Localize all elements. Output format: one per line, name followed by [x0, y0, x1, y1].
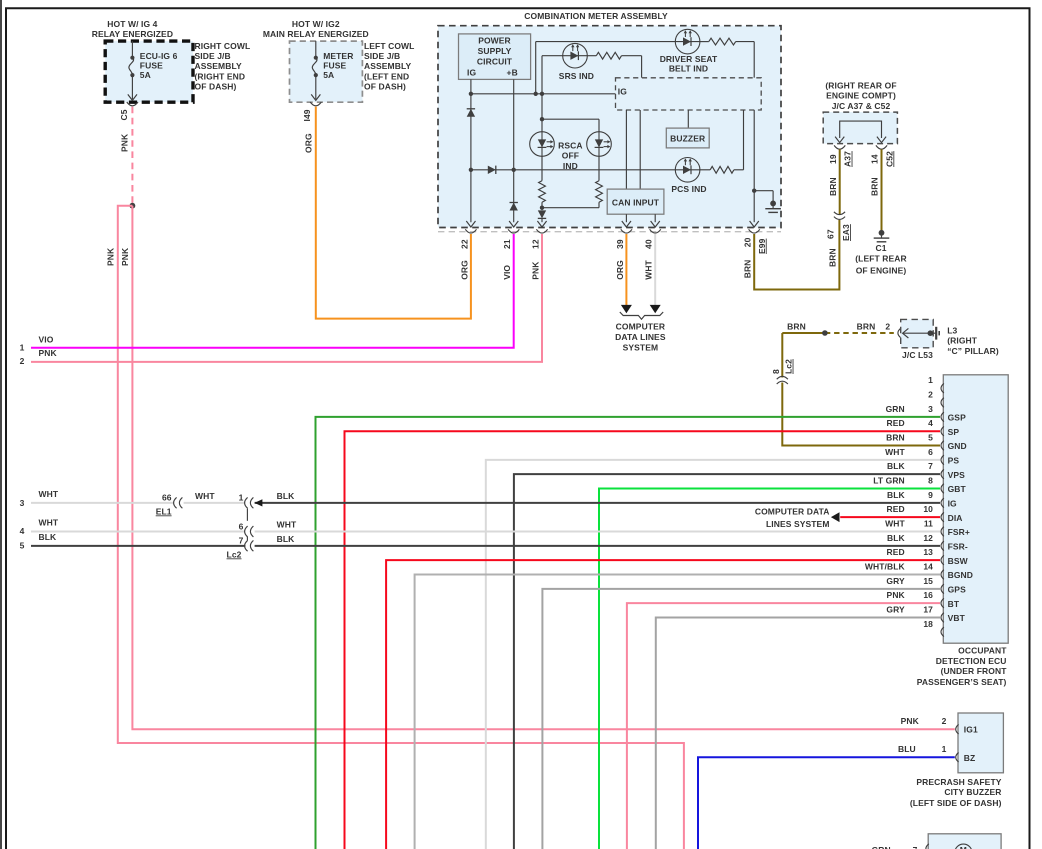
svg-text:IG: IG [948, 498, 957, 508]
svg-text:4: 4 [928, 418, 933, 428]
label COMBINATION METER ASSEMBLY [524, 11, 668, 21]
svg-text:20: 20 [743, 237, 753, 247]
svg-text:DATA LINES: DATA LINES [615, 332, 666, 342]
svg-text:LEFT COWL: LEFT COWL [364, 41, 414, 51]
svg-text:5A: 5A [140, 70, 151, 80]
svg-text:BELT IND: BELT IND [669, 63, 708, 73]
wire ORG from I49 to meter pin 22 [303, 107, 471, 319]
wire IG vertical to pin 22 [466, 79, 475, 227]
motor M symbol [955, 844, 972, 849]
svg-text:SIDE J/B: SIDE J/B [364, 51, 400, 61]
label COMPUTER DATA LINES SYSTEM bottom [615, 321, 666, 352]
svg-text:CIRCUIT: CIRCUIT [477, 56, 513, 66]
junction connector J/C A37 C52 box [823, 112, 897, 144]
svg-text:WHT: WHT [644, 259, 654, 279]
svg-text:BT: BT [948, 599, 960, 609]
svg-text:1: 1 [942, 744, 947, 754]
wire CAN to pin 40 [651, 214, 660, 227]
label RSCA OFF IND [558, 141, 583, 171]
occupant detection ECU box [943, 375, 1008, 643]
wire PNK pin 16 BT [627, 603, 940, 849]
label PRECRASH SAFETY CITY BUZZER [910, 777, 1002, 808]
svg-text:8: 8 [928, 476, 933, 486]
svg-text:VIO: VIO [502, 265, 512, 280]
svg-text:ASSEMBLY: ASSEMBLY [195, 61, 242, 71]
wire ORG pin 39 to data lines [621, 234, 632, 313]
svg-text:7: 7 [928, 461, 933, 471]
svg-text:BLK: BLK [887, 490, 906, 500]
precrash safety city buzzer box [958, 713, 1003, 773]
svg-text:POWER: POWER [478, 36, 511, 46]
wire BLU buzzer BZ [698, 757, 955, 849]
svg-text:5: 5 [20, 540, 25, 550]
wire RED pin 10 DIA computer data lines [831, 512, 940, 522]
wire BRN down to GND pin 5 [782, 333, 940, 446]
svg-text:+B: +B [507, 67, 518, 77]
brace computer data lines [620, 312, 663, 319]
seat motor box bottom [928, 834, 1001, 849]
svg-text:BUZZER: BUZZER [670, 134, 705, 144]
svg-text:GRN: GRN [872, 845, 891, 849]
wire PNK pin 12 to row 2 [31, 234, 542, 362]
wire to driver seat belt branch [535, 42, 537, 94]
connector EL1 pin 66 [156, 493, 183, 517]
svg-text:J/C A37 & C52: J/C A37 & C52 [832, 101, 891, 111]
label COMPUTER DATA LINES SYSTEM left [755, 507, 830, 529]
svg-text:WHT/BLK: WHT/BLK [865, 561, 906, 571]
svg-text:ECU-IG 6: ECU-IG 6 [140, 51, 178, 61]
ECU pin numbers [923, 375, 933, 629]
connector EA3 [826, 212, 851, 241]
svg-text:RELAY ENERGIZED: RELAY ENERGIZED [92, 29, 173, 39]
junction box right cowl side J/B (bold dashed) [105, 41, 193, 102]
svg-text:1: 1 [20, 343, 25, 353]
svg-text:PNK: PNK [531, 261, 541, 280]
svg-text:17: 17 [923, 604, 933, 614]
svg-text:A37: A37 [843, 151, 853, 167]
wire to internal ground [754, 191, 773, 201]
buzzer pin 1 BZ connector [898, 744, 959, 762]
label RIGHT COWL SIDE J/B ASSEMBLY [195, 41, 251, 91]
wire GRY pin 17 VBT [656, 617, 940, 849]
svg-text:C1: C1 [875, 243, 886, 253]
pin 19 A37 connector [828, 145, 853, 167]
svg-text:7: 7 [913, 845, 918, 849]
label OCCUPANT DETECTION ECU [917, 646, 1007, 687]
svg-text:ASSEMBLY: ASSEMBLY [364, 61, 411, 71]
fuse METER 5A [311, 41, 320, 100]
svg-text:ENGINE COMPT): ENGINE COMPT) [826, 91, 896, 101]
svg-text:19: 19 [828, 154, 838, 164]
svg-text:WHT: WHT [885, 519, 905, 529]
svg-text:1: 1 [928, 375, 933, 385]
svg-text:PNK: PNK [120, 133, 130, 152]
label BRN below EA3 [828, 248, 838, 267]
svg-text:WHT: WHT [277, 520, 297, 530]
wire RED pin 4 SP [345, 431, 941, 849]
junction connector J/C L53 box [901, 319, 934, 347]
svg-text:CITY BUZZER: CITY BUZZER [944, 787, 1001, 797]
resistor R4 RSCA right [542, 156, 602, 207]
svg-text:13: 13 [923, 547, 933, 557]
svg-text:“C” PILLAR): “C” PILLAR) [947, 346, 999, 356]
svg-text:L3: L3 [947, 325, 957, 335]
svg-text:PNK: PNK [120, 247, 130, 266]
pin stub right of L53 [933, 327, 939, 340]
wire CAN to pin 39 [622, 214, 631, 227]
wire WHT row 4 to ECU pin 11 FSR+ [255, 520, 940, 532]
svg-text:C5: C5 [119, 109, 129, 120]
svg-text:(LEFT REAR: (LEFT REAR [855, 253, 907, 263]
svg-text:6: 6 [928, 447, 933, 457]
connector Lc2 pin 1 [239, 493, 254, 509]
wire rail to PCS IND [469, 168, 676, 172]
connector arc to J/C L53 [898, 328, 901, 338]
splice junction on PNK [130, 203, 136, 209]
svg-text:OFF: OFF [562, 151, 579, 161]
wire RED pin 13 BSW [386, 560, 940, 849]
wire LT GRN pin 8 GBT [599, 489, 940, 849]
pin 22 connector [459, 229, 476, 279]
svg-text:IG1: IG1 [964, 725, 978, 735]
svg-text:2: 2 [20, 356, 25, 366]
power supply circuit block [459, 34, 531, 80]
buzzer block [666, 128, 709, 148]
svg-text:5A: 5A [323, 70, 334, 80]
ground internal meter [765, 201, 781, 213]
motor pin 7 connector [872, 844, 929, 849]
svg-text:21: 21 [502, 239, 512, 249]
CAN INPUT block [607, 189, 664, 214]
svg-text:HOT W/ IG 4: HOT W/ IG 4 [107, 19, 157, 29]
label HOT W/ IG 4 RELAY ENERGIZED [92, 19, 173, 39]
LED RSCA OFF IND left [530, 132, 555, 157]
svg-text:EA3: EA3 [841, 224, 851, 241]
svg-text:Lc2: Lc2 [784, 359, 794, 374]
wire BRN pin 20 to EA3 [754, 220, 839, 290]
wire WHT between connectors row 3 [184, 491, 246, 503]
resistor R1 SRS [596, 52, 641, 78]
svg-text:FSR+: FSR+ [948, 527, 970, 537]
svg-text:DIA: DIA [948, 513, 963, 523]
svg-text:GPS: GPS [948, 584, 966, 594]
node 4 wire WHT row [20, 518, 246, 536]
connector link vertical [246, 508, 248, 540]
label J/C L53 [902, 350, 933, 360]
svg-text:WHT: WHT [195, 491, 215, 501]
svg-text:BZ: BZ [964, 753, 976, 763]
pin 20 connector E99 [743, 229, 767, 278]
svg-text:10: 10 [923, 504, 933, 514]
arrow link inside L53 [903, 328, 934, 338]
svg-text:GBT: GBT [948, 484, 967, 494]
wire BLK pin 7 VPS [514, 474, 940, 849]
svg-text:(RIGHT: (RIGHT [947, 336, 978, 346]
svg-text:39: 39 [615, 239, 625, 249]
label METER FUSE 5A [323, 51, 353, 80]
svg-text:BLK: BLK [277, 491, 296, 501]
svg-text:LT GRN: LT GRN [873, 476, 905, 486]
page edge line [0, 0, 2, 849]
svg-text:BRN: BRN [870, 177, 880, 196]
svg-text:FSR-: FSR- [948, 541, 968, 551]
wire BRN A37 down [828, 149, 840, 214]
svg-text:VPS: VPS [948, 470, 966, 480]
svg-text:(LEFT END: (LEFT END [364, 71, 409, 81]
svg-text:IG: IG [467, 67, 476, 77]
wire WHT/BLK pin 14 BGND [415, 574, 940, 849]
wire BRN C52 to ground [870, 149, 882, 230]
label DRIVER SEAT BELT IND [660, 54, 718, 73]
label L3 RIGHT C PILLAR [947, 325, 999, 356]
resistor R3 RSCA left [539, 156, 546, 210]
wire PNK branch left [118, 206, 684, 849]
label ECU-IG 6 FUSE 5A [140, 51, 178, 80]
svg-text:CAN INPUT: CAN INPUT [612, 197, 660, 207]
svg-text:WHT: WHT [39, 518, 59, 528]
svg-text:15: 15 [923, 576, 933, 586]
connector Lc2 on BRN [771, 359, 793, 384]
fuse ECU-IG 6 5A [128, 41, 137, 100]
svg-text:(UNDER FRONT: (UNDER FRONT [941, 666, 1008, 676]
svg-text:SIDE J/B: SIDE J/B [195, 51, 231, 61]
wire VIO pin 21 to row 1 [31, 234, 514, 348]
svg-text:2: 2 [942, 716, 947, 726]
svg-text:M: M [960, 845, 967, 849]
svg-text:IND: IND [563, 161, 578, 171]
svg-text:WHT: WHT [39, 489, 59, 499]
node 5 wire BLK row [20, 532, 246, 550]
wire GRN pin 3 GSP [316, 417, 941, 849]
diode D3 on PCS rail [488, 166, 496, 174]
buzzer pin 2 IG1 connector [901, 716, 959, 734]
svg-text:COMPUTER: COMPUTER [616, 321, 665, 331]
pin 39 connector [615, 229, 632, 279]
diode D2 on +B line [510, 203, 518, 211]
pin 14 C52 connector [870, 145, 895, 167]
node 1 wire VIO [20, 334, 54, 352]
svg-text:ORG: ORG [459, 260, 469, 280]
svg-text:BRN: BRN [886, 433, 905, 443]
label Lc2 [227, 549, 242, 559]
pin 40 connector [644, 229, 661, 279]
svg-text:OF DASH): OF DASH) [364, 81, 406, 91]
svg-text:METER: METER [323, 51, 353, 61]
svg-text:2: 2 [928, 390, 933, 400]
wire BLK row 5 to ECU pin 12 FSR- [255, 534, 940, 546]
svg-text:7: 7 [239, 536, 244, 546]
svg-text:IG: IG [618, 87, 627, 97]
svg-text:3: 3 [928, 404, 933, 414]
svg-text:GRY: GRY [886, 604, 905, 614]
connector I49 [302, 102, 321, 122]
connector Lc2 pin 7 [239, 536, 254, 552]
svg-text:HOT W/ IG2: HOT W/ IG2 [292, 19, 340, 29]
svg-text:14: 14 [870, 154, 880, 164]
svg-text:SP: SP [948, 427, 960, 437]
svg-text:PNK: PNK [901, 716, 920, 726]
svg-text:OCCUPANT: OCCUPANT [958, 646, 1007, 656]
svg-text:66: 66 [162, 493, 172, 503]
svg-text:SRS IND: SRS IND [559, 71, 594, 81]
wire GRY pin 15 GPS [542, 589, 940, 849]
svg-text:COMBINATION METER ASSEMBLY: COMBINATION METER ASSEMBLY [524, 11, 668, 21]
svg-text:12: 12 [923, 533, 933, 543]
wire pin 20 vertical [750, 110, 759, 227]
connector C5 [119, 102, 138, 121]
node 3 wire WHT to EL1 [20, 489, 175, 508]
wire PNK down to buzzer IG1 [132, 206, 954, 730]
svg-text:12: 12 [531, 239, 541, 249]
svg-text:3: 3 [20, 498, 25, 508]
wire WHT pin 40 to data lines [650, 234, 661, 313]
resistor R2 driver seat belt [709, 38, 754, 78]
svg-text:8: 8 [771, 369, 781, 374]
svg-text:BRN: BRN [743, 260, 753, 279]
wire BRN to J/C L53 [782, 332, 894, 334]
svg-text:I49: I49 [302, 109, 312, 121]
connector Lc2 pin 6 [239, 521, 254, 537]
svg-text:(RIGHT END: (RIGHT END [195, 71, 246, 81]
svg-text:PNK: PNK [105, 247, 115, 266]
svg-text:BLK: BLK [887, 533, 906, 543]
label LEFT COWL SIDE J/B ASSEMBLY [364, 41, 414, 91]
ECU wire color labels [865, 404, 906, 615]
svg-text:6: 6 [239, 521, 244, 531]
ECU pin arcs 1-18 [941, 383, 944, 636]
diode D4 to pin 12 [537, 210, 546, 227]
svg-text:RED: RED [887, 418, 905, 428]
combination meter assembly box [438, 26, 781, 228]
wire to SRS branch [541, 56, 543, 94]
splice on BRN wire [822, 330, 828, 336]
label C1 LEFT REAR OF ENGINE [855, 243, 907, 276]
svg-text:VIO: VIO [39, 334, 54, 344]
svg-text:DETECTION ECU: DETECTION ECU [936, 656, 1007, 666]
LED PCS IND [675, 158, 710, 183]
label SRS IND [559, 71, 594, 81]
svg-text:PASSENGER’S SEAT): PASSENGER’S SEAT) [917, 677, 1007, 687]
svg-text:11: 11 [924, 519, 933, 529]
svg-text:E99: E99 [757, 238, 767, 254]
svg-text:67: 67 [826, 229, 836, 239]
svg-text:5: 5 [928, 433, 933, 443]
svg-text:WHT: WHT [885, 447, 905, 457]
LED DRIVER SEAT BELT IND [536, 29, 709, 54]
svg-text:BRN: BRN [787, 321, 806, 331]
svg-text:RED: RED [887, 547, 905, 557]
svg-text:BSW: BSW [948, 556, 969, 566]
svg-text:PNK: PNK [887, 590, 906, 600]
svg-text:1: 1 [239, 493, 244, 503]
label PCS IND [671, 184, 706, 194]
svg-text:BGND: BGND [948, 570, 973, 580]
svg-text:BLU: BLU [898, 744, 916, 754]
label PNK PNK vertical [105, 247, 130, 266]
svg-text:SYSTEM: SYSTEM [623, 343, 659, 353]
svg-text:OF ENGINE): OF ENGINE) [856, 266, 907, 276]
svg-text:PNK: PNK [39, 348, 58, 358]
pin 12 connector [531, 229, 548, 279]
svg-text:RED: RED [887, 504, 905, 514]
svg-text:BLK: BLK [277, 534, 296, 544]
wire +B vertical to pin 21 [509, 79, 518, 227]
svg-text:BLK: BLK [39, 532, 58, 542]
svg-text:EL1: EL1 [156, 506, 172, 516]
svg-text:GRY: GRY [886, 576, 905, 586]
svg-text:SUPPLY: SUPPLY [478, 46, 512, 56]
resistor R5 PCS [710, 110, 743, 173]
svg-text:PRECRASH SAFETY: PRECRASH SAFETY [916, 777, 1001, 787]
jumper link inside J/C [835, 121, 886, 143]
inner dashed block IG [616, 78, 762, 110]
svg-text:COMPUTER DATA: COMPUTER DATA [755, 507, 830, 517]
node 2 wire PNK [20, 348, 58, 366]
svg-text:J/C L53: J/C L53 [902, 350, 933, 360]
svg-text:Lc2: Lc2 [227, 549, 242, 559]
svg-text:16: 16 [923, 590, 933, 600]
LED SRS IND [542, 43, 596, 68]
svg-text:PCS IND: PCS IND [671, 184, 706, 194]
wire RSCA branch [540, 94, 599, 132]
ECU pin names [948, 412, 973, 623]
svg-text:40: 40 [644, 239, 654, 249]
svg-text:GND: GND [948, 441, 967, 451]
svg-text:BRN: BRN [857, 321, 876, 331]
junction box left cowl side J/B (dashed) [290, 41, 363, 102]
wire buzzer feed [687, 110, 689, 128]
ground C1 [874, 230, 890, 242]
svg-text:RIGHT COWL: RIGHT COWL [195, 41, 251, 51]
label BRN BRN 2 [787, 321, 890, 331]
svg-text:BLK: BLK [887, 461, 906, 471]
svg-text:LINES SYSTEM: LINES SYSTEM [766, 519, 830, 529]
label RIGHT REAR OF ENGINE COMPT [825, 80, 896, 110]
svg-text:MAIN RELAY ENERGIZED: MAIN RELAY ENERGIZED [263, 29, 369, 39]
LED RSCA OFF IND right [587, 132, 612, 157]
svg-text:9: 9 [928, 490, 933, 500]
svg-text:OF DASH): OF DASH) [195, 81, 237, 91]
svg-text:18: 18 [923, 619, 933, 629]
connector dashed line under meter box [438, 231, 781, 233]
wire WHT pin 6 PS [486, 460, 940, 849]
wire IG rail to inner block [469, 92, 616, 96]
svg-text:C52: C52 [884, 151, 894, 167]
svg-text:GRN: GRN [886, 404, 905, 414]
svg-text:4: 4 [20, 526, 25, 536]
svg-text:ORG: ORG [303, 133, 313, 153]
wire CAN input feeds [626, 110, 640, 189]
svg-text:(LEFT SIDE OF DASH): (LEFT SIDE OF DASH) [910, 798, 1002, 808]
svg-text:ORG: ORG [615, 260, 625, 280]
svg-text:RSCA: RSCA [558, 141, 583, 151]
svg-text:BRN: BRN [828, 248, 838, 267]
label HOT W/ IG2 MAIN RELAY ENERGIZED [263, 19, 369, 39]
svg-text:PS: PS [948, 455, 960, 465]
svg-text:VBT: VBT [948, 613, 966, 623]
diode D1 on IG line [467, 109, 475, 117]
wire PNK dashed from C5 [120, 107, 133, 204]
svg-text:(RIGHT REAR OF: (RIGHT REAR OF [825, 80, 896, 90]
svg-text:22: 22 [459, 239, 469, 249]
svg-text:GSP: GSP [948, 412, 966, 422]
pin 21 connector [502, 229, 519, 279]
svg-text:14: 14 [923, 561, 933, 571]
svg-text:BRN: BRN [828, 177, 838, 196]
wire BLK row 3 to ECU pin 9 IG [254, 491, 940, 507]
svg-text:2: 2 [885, 321, 890, 331]
